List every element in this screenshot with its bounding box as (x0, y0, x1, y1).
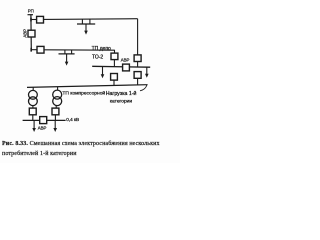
svg-text:АВР: АВР (121, 58, 130, 63)
breaker to load bus (right) (134, 72, 141, 79)
breaker input 2 ТП депо (134, 55, 141, 62)
leader arrow of Нагрузка label (140, 85, 147, 91)
outgoing arrow right on mid bus (146, 67, 148, 74)
load arrow left 0,4 кВ (33, 120, 35, 128)
breaker to load bus (left) (111, 74, 118, 81)
tap 2 bar (59, 53, 75, 55)
svg-text:ТП депо: ТП депо (92, 46, 111, 52)
mid bus ТП депо ТО-2 (92, 65, 150, 68)
svg-text:ТО-2: ТО-2 (92, 54, 103, 60)
transformer T1 (ТП компрессорной) (29, 90, 38, 99)
tap 2 outgoing arrow (66, 54, 68, 62)
wire: riser to mid bus (137, 62, 139, 68)
supply tick (top bar of РП riser) (28, 14, 34, 16)
wire: LV breaker right to 0,4 кВ bus (54, 115, 56, 121)
wire: left drop to load bus (113, 80, 115, 86)
svg-text:Нагрузка 1-й: Нагрузка 1-й (106, 90, 137, 97)
load arrow right 0,4 кВ (54, 120, 56, 128)
outgoing arrow left on mid bus (102, 67, 104, 75)
transformer T2 (ТП компрессорной) (53, 90, 62, 99)
wire: LV breaker left to 0,4 кВ bus (32, 115, 34, 121)
svg-text:0,4 кВ: 0,4 кВ (66, 117, 79, 122)
wire: right drop to load bus (137, 78, 139, 85)
caption line 2 (2, 151, 77, 159)
caption line 1 (2, 141, 160, 149)
svg-text:РП: РП (28, 8, 34, 13)
svg-text:АВР: АВР (38, 125, 47, 130)
tap 2 drop a (64, 50, 66, 54)
svg-text:ТП компрессорной: ТП компрессорной (62, 89, 105, 96)
tap 1 drop b (89, 19, 91, 24)
breaker QF1 (top feeder) (37, 16, 44, 23)
wire: left riser corner at ТП депо (114, 50, 116, 54)
tap 1 drop a (81, 19, 83, 24)
wire: left riser to mid bus (113, 60, 115, 67)
0,4 кВ bus (23, 119, 66, 121)
tap 1 bar (77, 23, 95, 25)
wire: T2 to LV breaker (55, 106, 57, 109)
wire: right riser from feeder W1 down (137, 19, 139, 55)
breaker QF2 (second feeder) (37, 46, 44, 53)
svg-text:АВР: АВР (23, 29, 28, 38)
wire: feeder W2 to corner at ТП депо (44, 49, 115, 51)
АВР tie switch ТП депо (123, 64, 130, 71)
breaker input 1 ТП депо (111, 53, 118, 60)
wire: T1 to LV breaker (32, 106, 34, 109)
transformer T1 drop (32, 87, 34, 90)
transformer T2 drop (57, 87, 59, 91)
tap 2 drop b (71, 50, 73, 54)
АВР tie switch 0,4 кВ (40, 117, 47, 124)
wire: stub РП to breaker QF2 (31, 49, 37, 51)
svg-text:категории: категории (110, 99, 133, 104)
wire: feeder W1 to corner (44, 18, 138, 21)
load bus / feeder to ТП компрессорной (27, 85, 148, 88)
junction tick feeder 2 (30, 48, 32, 52)
wire: stub РП to breaker QF1 (31, 19, 37, 21)
LV breaker right (52, 108, 59, 115)
tap 1 outgoing arrow (85, 24, 87, 31)
АВР tie switch at РП (28, 30, 35, 37)
РП sectional riser (vertical busbar) (30, 14, 32, 50)
LV breaker left (29, 108, 36, 115)
junction tick feeder 1 (30, 18, 32, 22)
